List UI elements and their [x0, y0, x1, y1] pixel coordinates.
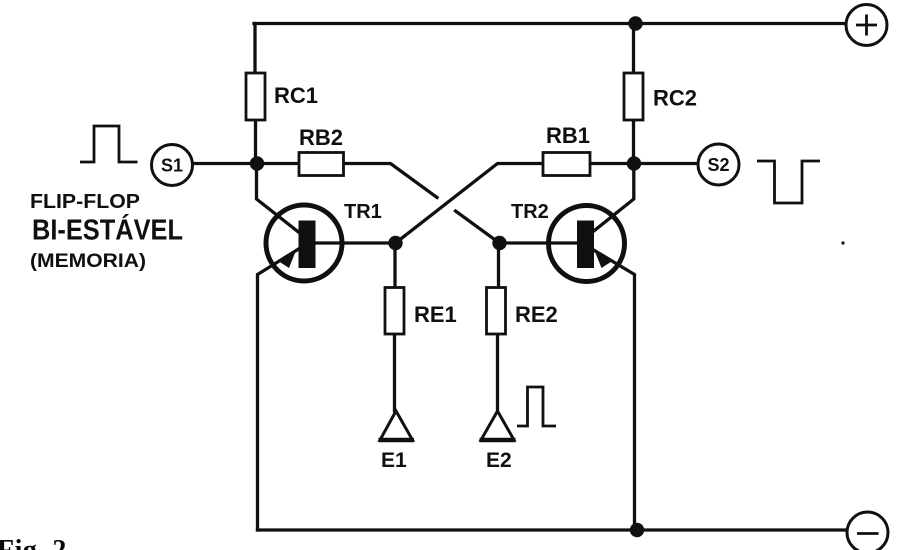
- svg-text:(MEMORIA): (MEMORIA): [30, 251, 146, 272]
- svg-text:RE1: RE1: [414, 302, 457, 327]
- svg-text:FLIP-FLOP: FLIP-FLOP: [30, 191, 140, 213]
- svg-text:RC2: RC2: [653, 86, 697, 111]
- svg-text:RB2: RB2: [299, 125, 343, 150]
- svg-text:TR2: TR2: [511, 201, 549, 223]
- svg-text:E2: E2: [486, 449, 512, 472]
- svg-text:E1: E1: [381, 449, 407, 472]
- svg-text:TR1: TR1: [344, 201, 382, 223]
- svg-text:RB1: RB1: [546, 123, 590, 148]
- svg-text:S1: S1: [161, 156, 183, 176]
- svg-text:RE2: RE2: [515, 302, 558, 327]
- svg-text:RC1: RC1: [274, 83, 318, 108]
- svg-text:S2: S2: [707, 155, 729, 175]
- svg-text:BI-ESTÁVEL: BI-ESTÁVEL: [32, 213, 183, 247]
